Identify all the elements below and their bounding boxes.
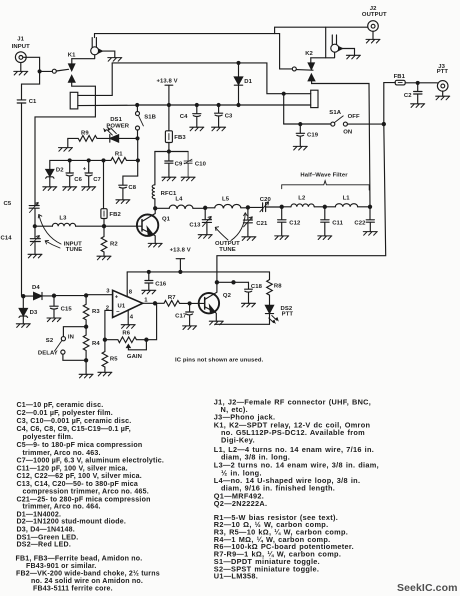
node C17 tap — [188, 302, 191, 305]
wire K1 top to J2 line — [95, 33, 280, 35]
wire Q1 emitter to ground — [153, 235, 155, 244]
svg-text:IN: IN — [68, 334, 74, 340]
svg-text:TUNE: TUNE — [219, 247, 235, 253]
transistor Q1 — [137, 215, 171, 236]
node C7 tap — [87, 159, 90, 162]
svg-text:S2: S2 — [46, 338, 54, 344]
svg-text:C20: C20 — [260, 197, 272, 203]
ground under C2 — [411, 104, 425, 108]
node D1 top — [237, 61, 240, 64]
wire C1 to D3/D4 node (left rail) — [21, 103, 23, 296]
relay K2 armature circle — [311, 27, 355, 58]
svg-text:+13.8 V: +13.8 V — [157, 78, 178, 84]
node C19 tap — [299, 123, 302, 126]
inductor L4 — [155, 197, 205, 209]
ground under C7 — [82, 187, 96, 191]
ground under C12 — [275, 236, 289, 240]
wire J1 to junction — [23, 57, 40, 71]
svg-text:R3: R3 — [92, 309, 100, 315]
trimmer capacitor C5 — [4, 201, 40, 226]
svg-text:OFF: OFF — [348, 114, 360, 120]
svg-text:Digi-Key.: Digi-Key. — [221, 436, 255, 445]
switch S1A — [284, 110, 384, 136]
svg-text:K1: K1 — [68, 53, 76, 59]
node S1A output — [382, 123, 385, 126]
ferrite bead FB2 — [101, 160, 122, 226]
ground under R9 — [59, 148, 73, 152]
svg-text:FB3: FB3 — [174, 135, 186, 141]
LED DS2 — [265, 305, 293, 324]
relay K1 NO contact (upper triangle) — [35, 76, 95, 205]
svg-text:D3, D4—1N4148.: D3, D4—1N4148. — [17, 526, 75, 533]
node K1 NC contact — [52, 69, 56, 73]
svg-text:C17: C17 — [175, 314, 187, 320]
ground under J3 — [436, 91, 450, 100]
relay K2 wiper arrow — [296, 51, 314, 70]
svg-text:Q2—2N2222A.: Q2—2N2222A. — [214, 499, 268, 508]
node C13 tap — [204, 206, 207, 209]
svg-text:C16: C16 — [155, 282, 167, 288]
svg-text:Half–Wave Filter: Half–Wave Filter — [300, 172, 348, 178]
svg-text:R1: R1 — [115, 151, 123, 157]
node R1 left / FB2 column — [102, 159, 105, 162]
node DS1/S1B junction — [136, 137, 139, 140]
potentiometer R6 — [106, 331, 146, 360]
svg-text:S1A: S1A — [329, 110, 341, 116]
node rail C3 — [217, 104, 220, 107]
node Q2 collector junction — [215, 281, 218, 284]
wire switched supply down to lower section — [217, 124, 386, 282]
svg-text:FB2: FB2 — [109, 212, 121, 218]
wire D4 line — [54, 295, 86, 297]
svg-text:U1: U1 — [118, 303, 126, 309]
svg-text:C2: C2 — [404, 93, 412, 99]
svg-text:C12: C12 — [289, 220, 301, 226]
svg-text:C7—1000 µF, 6.3 V, aluminum el: C7—1000 µF, 6.3 V, aluminum electrolytic… — [17, 458, 165, 465]
svg-text:C10: C10 — [195, 161, 207, 167]
wire junction to C1 — [22, 71, 40, 99]
wire junction to K1 NC contact — [41, 70, 52, 72]
svg-text:DS1—Green LED.: DS1—Green LED. — [17, 534, 79, 541]
wire U1 pin3 input — [86, 294, 113, 296]
resistor R3 — [83, 295, 100, 326]
svg-text:D2: D2 — [56, 167, 64, 173]
capacitor C3 — [215, 105, 234, 127]
svg-text:C6: C6 — [74, 177, 82, 183]
node C6 tap — [68, 159, 71, 162]
ground under Q1 — [148, 243, 162, 247]
svg-text:FB1, FB3—Ferrite bead, Amidon: FB1, FB3—Ferrite bead, Amidon no. — [16, 555, 143, 562]
node C18 wire — [232, 281, 235, 284]
diode D3 — [19, 296, 38, 324]
wire D2/C6/C7 rail — [50, 160, 104, 169]
diode D2 — [46, 167, 65, 187]
svg-text:+13.8 V: +13.8 V — [170, 248, 191, 254]
svg-text:DS2—Red LED.: DS2—Red LED. — [17, 542, 71, 549]
ground under C10 — [181, 177, 195, 181]
capacitor C18 — [245, 282, 263, 303]
capacitor C17 — [175, 303, 193, 326]
svg-text:K2: K2 — [305, 51, 313, 57]
svg-text:TUNE: TUNE — [66, 247, 82, 253]
diode D1 — [234, 63, 252, 105]
wire +13.8V rail — [137, 104, 311, 106]
svg-text:+: + — [115, 295, 119, 301]
wire collector junction to C18 — [217, 281, 249, 283]
svg-text:C8: C8 — [128, 185, 136, 191]
ground under D3 — [16, 324, 30, 328]
svg-text:−: − — [116, 310, 120, 316]
svg-text:C2—0.01 µF, polyester film.: C2—0.01 µF, polyester film. — [17, 410, 113, 417]
svg-text:R9: R9 — [81, 130, 89, 136]
wire S1A feed — [283, 94, 285, 124]
svg-text:C21—25- to 280-pF mica compres: C21—25- to 280-pF mica compression — [17, 496, 151, 503]
node C2 tap — [416, 81, 419, 84]
capacitor C16 — [145, 272, 167, 290]
svg-text:D1: D1 — [244, 79, 252, 85]
relay K2 coil — [311, 90, 318, 107]
node rail C4 — [195, 104, 198, 107]
node J1 junction — [38, 70, 41, 73]
trimmer capacitor C13 — [189, 208, 211, 235]
node rail FB3 — [167, 104, 170, 107]
node R6 left / pin2 — [103, 338, 106, 341]
svg-text:3: 3 — [106, 288, 110, 294]
relay K1 coil — [70, 63, 137, 109]
node C21 tap — [246, 206, 249, 209]
connector J1 — [12, 37, 30, 63]
wire NC contact to J2 line — [280, 34, 293, 69]
svg-text:C4: C4 — [180, 114, 188, 120]
trimmer capacitor C14 — [1, 226, 41, 254]
svg-text:1: 1 — [144, 297, 148, 303]
resistor R4 — [83, 327, 100, 361]
ground under R4 — [79, 374, 93, 378]
svg-text:Q2: Q2 — [223, 293, 232, 299]
inductor RFC1 — [152, 152, 177, 209]
connector J3 — [437, 64, 449, 91]
ground under C19 — [293, 146, 307, 150]
svg-text:4: 4 — [130, 315, 134, 321]
svg-text:L1: L1 — [343, 196, 351, 202]
svg-text:C3, C10—0.001 µF, ceramic disc: C3, C10—0.001 µF, ceramic disc. — [17, 418, 132, 425]
ground under C17 — [183, 326, 197, 330]
svg-text:PTT: PTT — [282, 312, 294, 318]
ferrite bead FB3 — [165, 105, 186, 152]
ground under C11 — [318, 236, 332, 240]
svg-text:C19: C19 — [307, 133, 319, 139]
svg-text:C11—120 pF, 100 V, silver mica: C11—120 pF, 100 V, silver mica. — [17, 465, 128, 472]
svg-text:C21: C21 — [256, 221, 268, 227]
svg-text:L2: L2 — [298, 196, 306, 202]
svg-text:R6: R6 — [122, 331, 130, 337]
INPUT TUNE callout — [38, 215, 82, 254]
node R3 top — [85, 294, 88, 297]
wire Q1 collector — [153, 208, 155, 215]
wire Q2 emitter to ground — [215, 312, 216, 321]
svg-text:ON: ON — [343, 130, 352, 136]
node C16 tap — [147, 270, 150, 273]
svg-text:+: + — [83, 167, 87, 173]
capacitor C1 — [17, 99, 37, 105]
resistor R9 — [68, 130, 110, 147]
resistor R2 — [101, 226, 118, 256]
ground under D2 — [43, 187, 57, 191]
node R4 bottom — [85, 359, 88, 362]
ground under C22 — [363, 232, 377, 236]
svg-text:C3: C3 — [225, 114, 233, 120]
svg-text:J1: J1 — [17, 37, 24, 43]
trimmer capacitor C20 (series) — [250, 197, 282, 212]
ground under J1 — [14, 63, 28, 75]
node K2 NC contact — [292, 67, 296, 71]
switch S1B — [136, 105, 156, 138]
ground under C8 — [116, 200, 130, 204]
svg-text:C18: C18 — [251, 284, 263, 290]
capacitor C8 — [119, 176, 138, 200]
wire op-amp supply rail — [127, 271, 269, 273]
inductor L5 — [207, 197, 248, 208]
svg-text:IC pins not shown are unused.: IC pins not shown are unused. — [175, 357, 264, 363]
svg-text:C22: C22 — [354, 220, 366, 226]
ground under C18 — [242, 303, 256, 307]
svg-text:SeekIC.com: SeekIC.com — [397, 582, 458, 594]
op-amp U1 — [106, 288, 149, 320]
svg-text:trimmer, Arco no. 464.: trimmer, Arco no. 464. — [23, 504, 101, 511]
resistor R7 — [157, 295, 181, 306]
wire J2 feed jog — [275, 27, 368, 33]
relay K1 wiper arrow — [56, 53, 76, 71]
ground under C6 — [63, 187, 77, 191]
capacitor C22 — [354, 207, 374, 232]
svg-text:C14: C14 — [1, 235, 13, 241]
LED DS1 — [104, 117, 138, 142]
ferrite bead FB1 — [394, 74, 406, 85]
node R1 right — [136, 159, 139, 162]
node rail S1B — [136, 104, 139, 107]
+13.8V supply tap (lower) — [170, 248, 191, 272]
wire Q2 base — [181, 302, 205, 304]
svg-text:C1: C1 — [29, 99, 37, 105]
relay K2 NO contact (upper triangle) — [308, 74, 315, 81]
ground at K1 armature — [108, 58, 122, 62]
svg-text:R2: R2 — [110, 242, 118, 248]
ground under C14 — [28, 254, 42, 258]
capacitor C9 — [165, 152, 183, 178]
connector J2 — [362, 6, 387, 31]
wire base to Q1 — [106, 225, 142, 227]
svg-text:D4: D4 — [32, 285, 40, 291]
ground under C13 — [198, 235, 212, 239]
svg-text:FB43-901 or similar.: FB43-901 or similar. — [26, 563, 97, 570]
inductor L1 — [326, 196, 369, 207]
svg-text:R8: R8 — [274, 283, 282, 289]
ground under pin4 — [121, 325, 135, 329]
svg-text:FB43-5111 ferrite core.: FB43-5111 ferrite core. — [33, 586, 113, 593]
parts list right column — [214, 397, 379, 580]
svg-text:R4: R4 — [92, 341, 100, 347]
svg-text:C1—10 pF, ceramic disc.: C1—10 pF, ceramic disc. — [17, 402, 104, 409]
ground under J2 — [366, 31, 380, 43]
wire U1 output — [143, 302, 157, 304]
svg-text:U1—LM358.: U1—LM358. — [214, 572, 258, 581]
svg-text:R5: R5 — [110, 356, 118, 362]
wire C9/C10/RFC1 header — [155, 151, 188, 153]
capacitor C4 — [180, 105, 201, 127]
svg-text:trimmer, Arco no. 463.: trimmer, Arco no. 463. — [23, 450, 101, 457]
wire feedback from output — [146, 303, 156, 339]
wire R4 to ground — [85, 360, 87, 374]
ground under C21 — [242, 237, 256, 241]
capacitor C12 — [278, 207, 301, 236]
capacitor C7 (electrolytic) — [83, 160, 102, 186]
node rail D1 — [237, 104, 240, 107]
ground under Q2 — [209, 321, 223, 325]
transistor Q2 — [199, 282, 232, 313]
svg-text:compression trimmer, Arco no.: compression trimmer, Arco no. 465. — [23, 489, 149, 496]
svg-text:D2—1N1200 stud-mount diode.: D2—1N1200 stud-mount diode. — [17, 519, 127, 526]
ground at K2 armature — [346, 55, 360, 59]
svg-text:D1—1N4002.: D1—1N4002. — [17, 511, 62, 518]
resistor R5 — [102, 340, 118, 373]
wire U1 pin4 to ground — [127, 310, 129, 325]
capacitor C11 — [321, 207, 344, 236]
svg-text:L4: L4 — [175, 197, 183, 203]
svg-text:R7: R7 — [168, 295, 176, 301]
capacitor C19 — [296, 124, 319, 146]
node R6 right — [145, 338, 148, 341]
svg-text:PTT: PTT — [437, 69, 449, 75]
capacitor C10 — [184, 152, 207, 178]
svg-text:C12, C22—62 pF, 100 V, silver: C12, C22—62 pF, 100 V, silver mica. — [17, 473, 142, 480]
svg-text:D3: D3 — [30, 310, 38, 316]
ground under C9 — [162, 177, 176, 181]
capacitor C15 — [50, 296, 73, 318]
svg-text:INPUT: INPUT — [12, 44, 30, 50]
svg-text:C5: C5 — [4, 201, 12, 207]
svg-text:C5—9- to 180-pF mica compressi: C5—9- to 180-pF mica compression — [17, 442, 143, 449]
wire coil net to D1 and K2 coil — [112, 63, 311, 94]
svg-text:8: 8 — [129, 289, 133, 295]
node C11 tap — [323, 205, 326, 208]
svg-text:FB1: FB1 — [394, 74, 406, 80]
capacitor C6 — [66, 160, 83, 186]
ground under C16 — [142, 290, 156, 294]
svg-text:no. 24 solid wire on Amidon no: no. 24 solid wire on Amidon no. — [31, 578, 143, 585]
svg-text:C13: C13 — [189, 222, 201, 228]
+13.8V supply tap (top) — [157, 78, 178, 105]
node D3/D4 — [22, 295, 25, 298]
switch S2 — [38, 327, 86, 361]
inductor L3 — [36, 215, 103, 226]
node U1 output — [153, 302, 156, 305]
wire DS2 cathode to Q2 ground — [215, 323, 270, 325]
node collector — [154, 207, 157, 210]
wire S1B junction down to R1 — [137, 138, 139, 176]
wire pin8 riser — [126, 272, 128, 297]
inductor L2 — [283, 196, 324, 207]
svg-text:L5: L5 — [222, 197, 230, 203]
node Q1 base — [102, 225, 105, 228]
ground under R2 — [97, 256, 111, 260]
node FB3 bottom — [167, 150, 170, 153]
svg-text:OUTPUT: OUTPUT — [362, 12, 387, 18]
ground under C4 — [190, 127, 204, 131]
OUTPUT TUNE callout — [215, 213, 247, 253]
svg-text:FB2—VK-200 wide-band choke, 2½: FB2—VK-200 wide-band choke, 2½ turns — [16, 569, 160, 577]
node input tune junction — [33, 225, 36, 228]
wire FB1 to J3 — [405, 82, 437, 84]
svg-text:C13, C14, C20—50- to 380-pF mi: C13, C14, C20—50- to 380-pF mica — [17, 481, 139, 488]
wire filter output up to K2 — [312, 81, 370, 207]
node C15 tap — [52, 294, 55, 297]
node filter output — [368, 205, 371, 208]
svg-text:C9: C9 — [175, 161, 183, 167]
parts list left column — [16, 402, 165, 592]
svg-text:C7: C7 — [93, 177, 101, 183]
svg-text:C4, C6, C8, C9, C15-C19—0.1 µF: C4, C6, C8, C9, C15-C19—0.1 µF, — [17, 426, 131, 433]
node C12 tap — [280, 205, 283, 208]
ground under C15 — [47, 318, 61, 322]
resistor R1 — [104, 151, 137, 163]
resistor R8 — [267, 272, 283, 305]
ground under R5 — [98, 372, 112, 376]
svg-text:L3: L3 — [59, 215, 67, 221]
svg-text:polyester film.: polyester film. — [23, 434, 74, 441]
svg-text:POWER: POWER — [106, 123, 129, 129]
wire S1A junction up to FB1 — [384, 83, 395, 125]
Half-Wave Filter bracket — [282, 172, 370, 190]
svg-text:C11: C11 — [332, 220, 343, 226]
svg-text:S1B: S1B — [144, 114, 156, 120]
node supply tap on op-amp rail — [179, 270, 182, 273]
svg-text:Q1: Q1 — [162, 217, 171, 223]
svg-text:GAIN: GAIN — [127, 354, 142, 360]
wire pin2 — [105, 310, 113, 339]
ground under C3 — [212, 127, 226, 131]
trimmer capacitor C21 — [243, 207, 268, 236]
svg-text:DS1: DS1 — [110, 117, 122, 123]
capacitor C2 — [404, 83, 422, 104]
svg-text:C15: C15 — [61, 306, 73, 312]
node K2 coil feed — [282, 92, 285, 95]
diode D4 — [25, 285, 52, 299]
relay K1 armature circle — [72, 34, 115, 59]
node R3/R4 — [85, 325, 88, 328]
